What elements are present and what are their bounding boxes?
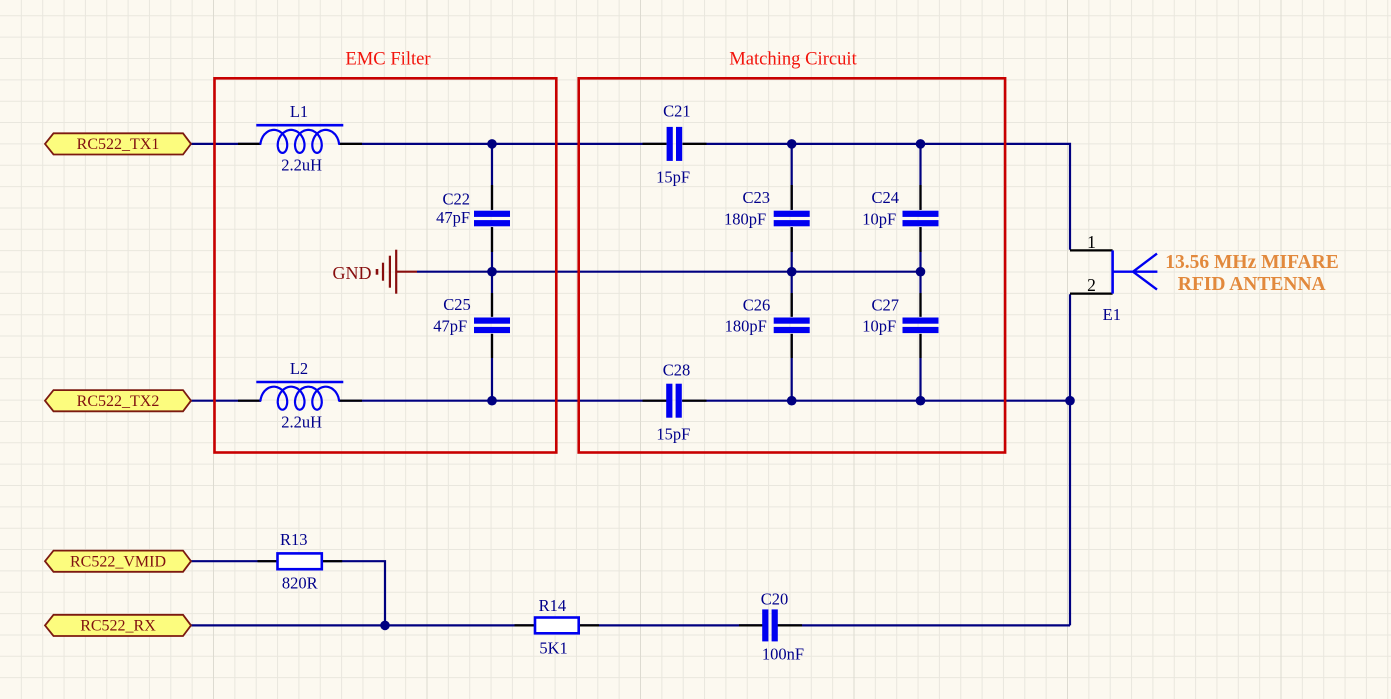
- port RC522_TX1: [45, 133, 191, 154]
- wire column C23/C26: [791, 144, 793, 401]
- pins L1: [238, 143, 362, 145]
- capacitor C27: [903, 318, 939, 324]
- svg-text:GND: GND: [333, 263, 372, 283]
- inductor L1: [256, 124, 343, 127]
- svg-text:10pF: 10pF: [862, 210, 896, 229]
- pins C22: [491, 185, 493, 252]
- svg-text:C27: C27: [871, 296, 899, 315]
- svg-text:2.2uH: 2.2uH: [281, 412, 322, 431]
- Matching Circuit box: [579, 78, 1005, 452]
- inductor L2: [256, 381, 343, 384]
- svg-text:15pF: 15pF: [656, 167, 690, 186]
- svg-text:Matching Circuit: Matching Circuit: [729, 49, 857, 70]
- svg-text:2: 2: [1087, 275, 1096, 295]
- svg-text:C28: C28: [663, 360, 691, 379]
- node TX1/C24: [916, 139, 926, 149]
- svg-text:47pF: 47pF: [436, 208, 470, 227]
- wire TX2 horizontal: [191, 400, 1070, 402]
- svg-text:1: 1: [1087, 232, 1096, 252]
- node TX2/C22: [487, 396, 497, 406]
- capacitor C24: [903, 211, 939, 217]
- port RC522_RX: [45, 615, 191, 636]
- svg-text:RC522_RX: RC522_RX: [80, 618, 156, 635]
- node GND/C22: [487, 267, 497, 277]
- svg-text:100nF: 100nF: [762, 645, 804, 664]
- pins C25: [491, 293, 493, 358]
- capacitor C20: [762, 609, 768, 641]
- node RX/R13: [380, 621, 390, 631]
- svg-text:47pF: 47pF: [433, 317, 467, 336]
- pins R13: [258, 560, 343, 562]
- svg-text:C21: C21: [663, 102, 691, 121]
- svg-text:RC522_VMID: RC522_VMID: [70, 553, 166, 570]
- svg-text:L2: L2: [290, 359, 308, 378]
- svg-text:C26: C26: [743, 296, 771, 315]
- svg-text:C25: C25: [443, 295, 471, 314]
- node TX2/E1: [1065, 396, 1075, 406]
- svg-text:13.56 MHz MIFARE: 13.56 MHz MIFARE: [1165, 252, 1338, 273]
- resistor R14: [535, 618, 579, 634]
- wire RX horizontal: [191, 624, 1070, 626]
- resistor R13: [278, 553, 322, 569]
- svg-text:RC522_TX2: RC522_TX2: [77, 393, 160, 410]
- svg-text:C24: C24: [871, 188, 899, 207]
- wire column C24/C27: [919, 144, 921, 401]
- pins C28: [643, 400, 707, 402]
- pins L2: [238, 400, 362, 402]
- node TX2/C23: [787, 396, 797, 406]
- port RC522_VMID: [45, 551, 191, 572]
- svg-text:L1: L1: [290, 102, 308, 121]
- svg-text:C22: C22: [442, 190, 470, 209]
- EMC Filter box: [215, 78, 557, 452]
- pin E1-2: [1070, 293, 1113, 295]
- wire TX1 horizontal: [191, 144, 1070, 626]
- svg-text:C23: C23: [742, 188, 770, 207]
- node GND/C23: [787, 267, 797, 277]
- black component pins: [238, 144, 1113, 626]
- wire VMID to R13 and down: [191, 561, 385, 625]
- capacitor C23: [774, 211, 810, 217]
- svg-text:820R: 820R: [282, 574, 318, 593]
- svg-text:R14: R14: [539, 596, 567, 615]
- svg-text:RC522_TX1: RC522_TX1: [77, 136, 160, 153]
- pins C27: [919, 293, 921, 358]
- wire column C22/C25: [491, 144, 493, 401]
- pins C23: [791, 185, 793, 252]
- svg-text:E1: E1: [1103, 305, 1121, 324]
- pins R14: [515, 624, 600, 626]
- node GND/C24: [916, 267, 926, 277]
- svg-text:15pF: 15pF: [656, 424, 690, 443]
- svg-text:2.2uH: 2.2uH: [281, 156, 322, 175]
- capacitor C21: [667, 127, 673, 161]
- port RC522_TX2: [45, 390, 191, 411]
- svg-text:C20: C20: [761, 590, 789, 609]
- pins C20: [739, 624, 802, 626]
- wire GND horizontal: [417, 271, 921, 273]
- pin E1-1: [1070, 249, 1113, 251]
- svg-text:180pF: 180pF: [725, 317, 767, 336]
- svg-text:10pF: 10pF: [862, 317, 896, 336]
- ground GND: [377, 250, 417, 294]
- capacitor C28: [666, 384, 672, 418]
- pins C26: [791, 293, 793, 358]
- svg-text:EMC Filter: EMC Filter: [345, 49, 431, 70]
- capacitor C26: [774, 318, 810, 324]
- capacitor C22: [474, 211, 510, 217]
- capacitor C25: [474, 318, 510, 324]
- pins C21: [643, 143, 707, 145]
- svg-text:180pF: 180pF: [724, 210, 766, 229]
- pins C24: [919, 185, 921, 252]
- connector E1: [1111, 250, 1114, 293]
- node TX2/C24: [916, 396, 926, 406]
- svg-text:RFID ANTENNA: RFID ANTENNA: [1178, 274, 1326, 295]
- antenna arrow: [1113, 254, 1158, 290]
- node TX1/C22: [487, 139, 497, 149]
- svg-text:R13: R13: [280, 530, 308, 549]
- node TX1/C23: [787, 139, 797, 149]
- wire E1 vertical lower: [1069, 294, 1071, 625]
- svg-text:5K1: 5K1: [539, 639, 567, 658]
